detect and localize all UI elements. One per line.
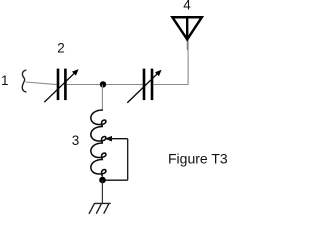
inductor 3 (tapped coil) bbox=[91, 110, 106, 176]
svg-text:4: 4 bbox=[183, 0, 191, 13]
variable capacitor 2: adjustment arrow bbox=[44, 69, 78, 102]
antenna 4: triangle bbox=[172, 17, 201, 39]
antenna 4: center element line bbox=[186, 16, 188, 40]
tap wire: horizontal back to bottom node bbox=[105, 179, 128, 181]
junction node dot bbox=[100, 81, 106, 87]
wire: capacitor 2 to junction node bbox=[67, 84, 100, 86]
variable capacitor (antenna side): adjustment arrow bbox=[127, 70, 161, 103]
wire: junction to antenna-side capacitor bbox=[106, 84, 143, 86]
svg-text:3: 3 bbox=[72, 133, 80, 148]
wire: bottom node to ground bbox=[101, 180, 103, 203]
svg-text:Figure T3: Figure T3 bbox=[168, 150, 228, 166]
wire: squiggle to capacitor 2 bbox=[26, 82, 57, 85]
tap wire: horizontal to right bbox=[111, 138, 128, 140]
bottom junction node dot bbox=[99, 177, 106, 184]
variable capacitor 2: right plate bbox=[64, 69, 67, 101]
inductor tap arrow bbox=[105, 136, 112, 142]
feed line break squiggle bbox=[22, 70, 26, 92]
variable capacitor (antenna side): right plate bbox=[151, 69, 154, 101]
wire: junction down to inductor 3 bbox=[101, 85, 103, 111]
svg-text:2: 2 bbox=[57, 41, 65, 56]
variable capacitor (antenna side): left plate bbox=[143, 69, 146, 101]
wire: capacitor to antenna riser (corner) bbox=[153, 41, 188, 85]
tap wire: vertical down bbox=[127, 139, 129, 181]
variable capacitor 2: left plate bbox=[57, 69, 60, 101]
ground symbol bbox=[89, 203, 110, 213]
antenna 4: wire stub below triangle bbox=[186, 39, 188, 50]
svg-text:1: 1 bbox=[1, 73, 9, 88]
